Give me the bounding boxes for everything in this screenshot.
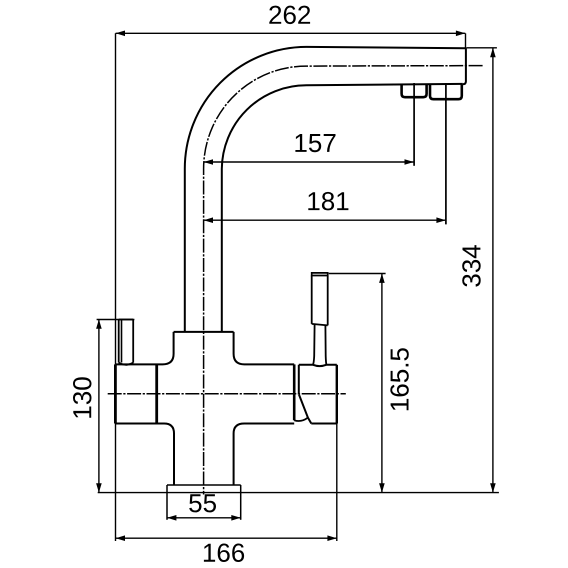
right arm bottom edge with fillet to column bbox=[234, 424, 295, 486]
arrow 334 top bbox=[490, 48, 496, 57]
base flange left side / extension for 55 bbox=[166, 485, 168, 520]
lever base block top edge with shaft notch bbox=[299, 365, 337, 366]
arrow 157 right bbox=[405, 159, 414, 165]
arrow 55 left bbox=[167, 515, 176, 521]
extension line aerator 1 bbox=[413, 83, 415, 166]
left handle bottom arc bbox=[119, 363, 134, 365]
label 130 bbox=[73, 377, 92, 417]
arrow 181 left bbox=[204, 217, 213, 223]
extension tick for 130 at handle top bbox=[97, 319, 135, 321]
arrow 334 bottom bbox=[490, 483, 496, 492]
extension line right of 262 at spout tip bbox=[465, 33, 467, 47]
arrow 130 top bbox=[96, 319, 102, 328]
left handle top edge bbox=[119, 319, 134, 321]
right arm end foot curve bbox=[294, 418, 308, 421]
label 181 bbox=[308, 192, 348, 211]
base flange top edge bbox=[167, 484, 241, 486]
spout outer profile (top edge, bend, tip) bbox=[185, 47, 466, 332]
dimension line 130 bbox=[98, 319, 100, 492]
lever handle grip bottom joint bbox=[312, 324, 328, 326]
label 157 bbox=[295, 134, 335, 152]
lever handle cap bbox=[312, 273, 328, 276]
lever base block bottom edge bbox=[311, 423, 337, 425]
dimension line 165.5 bbox=[381, 274, 383, 493]
arrow 262 left bbox=[116, 31, 125, 37]
aerator outlet box 1 bbox=[402, 84, 427, 97]
extension line top for 334 bbox=[467, 47, 497, 49]
extension line left (262/166) bbox=[115, 33, 117, 541]
spout tip right edge bbox=[463, 47, 466, 84]
lever base block diagonal parting line bbox=[299, 395, 311, 424]
label 55 bbox=[189, 494, 216, 512]
right arm end vertical bbox=[293, 364, 296, 420]
spout inner profile (bottom edge, inner bend) bbox=[222, 84, 463, 332]
aerator outlet box 2 bbox=[430, 84, 462, 99]
base flange right side / extension for 55 bbox=[240, 485, 242, 520]
lever handle grip right edge bbox=[327, 276, 329, 326]
arrow 165.5 top bbox=[379, 274, 385, 283]
body neck left edge with fillet to left arm top bbox=[115, 332, 173, 365]
extension line right block for 166 bbox=[336, 424, 338, 542]
dimension line 157 bbox=[204, 161, 414, 163]
lever base block right edge bbox=[336, 365, 338, 424]
label 165.5 bbox=[390, 348, 409, 410]
left handle left edge bbox=[118, 320, 120, 363]
label 166 bbox=[204, 544, 244, 563]
arrow 157 left bbox=[204, 159, 213, 165]
extension line aerator 2 bbox=[445, 83, 447, 224]
left handle inner line bbox=[121, 320, 123, 363]
arrow 165.5 bottom bbox=[379, 483, 385, 492]
label 334 bbox=[462, 245, 481, 287]
left valve block left edge bbox=[114, 364, 117, 423]
arrow 130 bottom bbox=[96, 483, 102, 492]
lever handle grip left edge bbox=[311, 276, 313, 324]
extension line top for 165.5 bbox=[329, 273, 386, 275]
arrow 55 right bbox=[231, 515, 240, 521]
dimension line 262 bbox=[116, 32, 466, 34]
lever handle shaft left edge bbox=[313, 325, 315, 365]
body neck top edge bbox=[174, 331, 234, 333]
lever base block left edge bbox=[298, 365, 300, 395]
label 262 bbox=[269, 6, 310, 25]
arrow 262 right bbox=[456, 31, 465, 37]
dimension line 166 bbox=[116, 537, 337, 539]
left handle right edge bbox=[132, 320, 134, 363]
dimension line 334 bbox=[492, 48, 494, 493]
centerline of spout and body (dash-dot) bbox=[204, 66, 483, 495]
arrow 166 left bbox=[116, 535, 125, 541]
centerline of side valves (dash-dot) bbox=[108, 393, 346, 395]
left valve block joint line bbox=[155, 364, 158, 423]
arrow 181 right bbox=[436, 217, 445, 223]
body neck right edge with fillet to right arm top bbox=[234, 332, 295, 365]
arrow 166 right bbox=[327, 535, 336, 541]
dimension line 55 bbox=[167, 517, 241, 519]
left arm bottom edge with fillet to column bbox=[115, 424, 174, 486]
dimension line 181 bbox=[204, 219, 446, 221]
lever handle shaft right edge bbox=[325, 325, 326, 365]
mounting deck line bbox=[98, 492, 499, 494]
